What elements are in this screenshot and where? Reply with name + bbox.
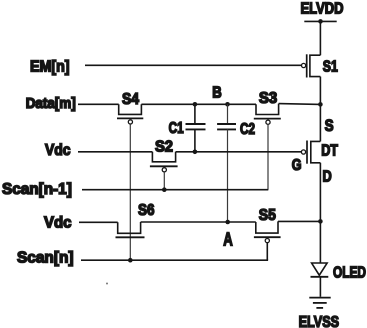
diode OLED [311, 263, 329, 277]
transistor S3 [254, 104, 281, 125]
svg-text:S: S [325, 116, 334, 135]
wire Vdc to S6 [79, 221, 118, 223]
svg-text:A: A [223, 229, 233, 249]
capacitor C1 [186, 104, 206, 152]
wire S6 to S5 (node A) [141, 221, 256, 223]
svg-text:C1: C1 [169, 120, 184, 137]
wire ELVDD to S1 drain [319, 21, 321, 55]
ELVDD rail bar [304, 20, 336, 22]
transistor S1 [302, 54, 321, 77]
speck artifact [106, 283, 108, 285]
svg-text:S4: S4 [122, 91, 139, 108]
wire S4 gate to Scan[n] [129, 124, 131, 260]
transistor S4 [117, 104, 143, 124]
svg-text:ELVDD: ELVDD [301, 1, 344, 18]
svg-text:S1: S1 [323, 59, 338, 76]
wire S3 drain to node S [279, 103, 321, 106]
node S5 drain junction [318, 219, 323, 224]
svg-text:C2: C2 [240, 121, 255, 138]
capacitor C2 [217, 104, 236, 222]
node B / C1 top junction [193, 102, 198, 107]
wire EM[n] to S1 gate [85, 64, 302, 66]
svg-text:Data[m]: Data[m] [26, 95, 76, 112]
node B / C2 top junction [225, 102, 230, 107]
wire S5 drain to main line [278, 220, 320, 222]
node S junction [318, 102, 323, 107]
transistor S5 [254, 221, 281, 242]
wire node B horizontal [141, 103, 256, 105]
wire S1 source to node S [319, 77, 321, 142]
transistor S2 [150, 152, 178, 172]
node S2 gate junction [162, 187, 167, 192]
node S4/S6 gate junction [128, 258, 133, 263]
node ELVDD junction [318, 19, 323, 24]
svg-text:Vdc: Vdc [45, 142, 71, 159]
svg-text:S6: S6 [138, 202, 155, 219]
svg-text:DT: DT [321, 142, 338, 159]
svg-text:OLED: OLED [333, 264, 366, 281]
svg-text:Scan[n-1]: Scan[n-1] [2, 181, 72, 198]
wire S2 gate to Scan[n-1] [163, 172, 165, 190]
ground ELVSS [309, 298, 330, 308]
svg-text:Vdc: Vdc [44, 214, 72, 231]
transistor DT [301, 141, 320, 164]
wire DT drain down [319, 163, 321, 263]
wire Scan[n] [81, 259, 267, 260]
svg-text:D: D [323, 168, 332, 185]
svg-text:B: B [212, 85, 222, 102]
wire S2 to DT gate (node G) [176, 151, 302, 153]
wire Data[m] to S4 [78, 103, 119, 105]
wire Vdc to S2 [78, 151, 152, 153]
transistor S6 [116, 222, 145, 237]
svg-text:EM[n]: EM[n] [30, 59, 70, 76]
wire Scan[n-1] [82, 189, 268, 191]
node C1 bottom junction [193, 150, 198, 155]
wire S5 gate down to Scan[n] [266, 243, 268, 260]
svg-text:S3: S3 [259, 90, 277, 107]
wire S3 gate to Scan[n-1] [267, 124, 269, 189]
svg-text:ELVSS: ELVSS [299, 314, 340, 328]
wire OLED to ground [319, 277, 321, 297]
svg-text:G: G [292, 157, 302, 174]
svg-text:S2: S2 [155, 138, 173, 155]
node A junction [225, 220, 230, 225]
svg-text:S5: S5 [259, 207, 276, 224]
svg-text:Scan[n]: Scan[n] [17, 249, 74, 266]
